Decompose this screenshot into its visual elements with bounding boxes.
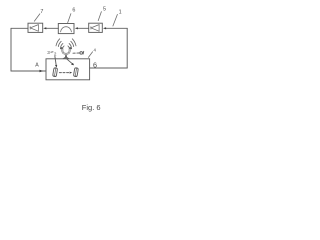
leader line label 5 <box>98 12 101 21</box>
wire left vertical segment <box>10 28 12 71</box>
arrowhead into amplifier U3 <box>103 27 106 29</box>
SAW device box <box>46 59 90 80</box>
svg-text:6: 6 <box>93 60 97 69</box>
radiating arcs left <box>56 39 64 49</box>
wire amplifier U3 to filter <box>77 27 88 29</box>
wire filter to amplifier U1 <box>46 27 59 29</box>
amplifier U3 box <box>89 23 103 32</box>
svg-text:3: 3 <box>47 50 50 55</box>
leader line label 2 <box>55 56 56 65</box>
IDT T2 <box>73 68 78 77</box>
wire left bottom segment <box>11 70 46 72</box>
leader line label 7 <box>34 14 40 21</box>
svg-text:A: A <box>35 63 39 69</box>
dashed leader to circle label <box>73 52 79 54</box>
wire right bottom segment <box>90 67 128 69</box>
leader line label 1 <box>113 14 118 26</box>
amplifier U1 box <box>28 23 43 32</box>
amplifier U3 apex bar <box>90 27 92 30</box>
wire left top segment <box>11 27 28 29</box>
radiating arcs right <box>68 39 76 49</box>
wire right vertical segment <box>126 28 128 68</box>
arrowhead into amplifier U1 <box>43 27 46 29</box>
svg-text:6: 6 <box>72 8 75 14</box>
svg-text:Fig. 6: Fig. 6 <box>82 103 101 112</box>
svg-text:1: 1 <box>119 9 122 15</box>
leader line label 6 top <box>68 14 71 23</box>
arrowhead leader 2 <box>55 65 57 68</box>
IDT T1 <box>53 68 58 77</box>
leader line fork to IDT T2 <box>67 59 73 64</box>
leader line label 4 <box>88 52 92 58</box>
svg-text:5: 5 <box>103 6 106 12</box>
amplifier U1 apex bar <box>29 27 31 30</box>
arrowhead fork leader <box>71 63 74 65</box>
arrowhead port A <box>40 70 44 73</box>
amplifier U1 triangle <box>30 25 38 32</box>
fork acoustic source <box>61 48 71 58</box>
svg-text:7: 7 <box>40 9 43 15</box>
arrowhead into filter <box>75 27 78 29</box>
wire right top segment <box>106 27 128 29</box>
arrowhead dashed acoustic path <box>70 72 73 74</box>
svg-text:2: 2 <box>54 52 57 57</box>
dashed acoustic path arrow <box>59 72 69 74</box>
fork foot <box>63 56 69 58</box>
leader dash label 3 <box>51 51 53 53</box>
filter U2 box <box>58 24 74 34</box>
filter U2 bandpass curve <box>61 27 72 32</box>
svg-text:4: 4 <box>94 48 97 53</box>
amplifier U3 triangle <box>91 25 99 32</box>
small circle label 10 <box>80 52 83 55</box>
